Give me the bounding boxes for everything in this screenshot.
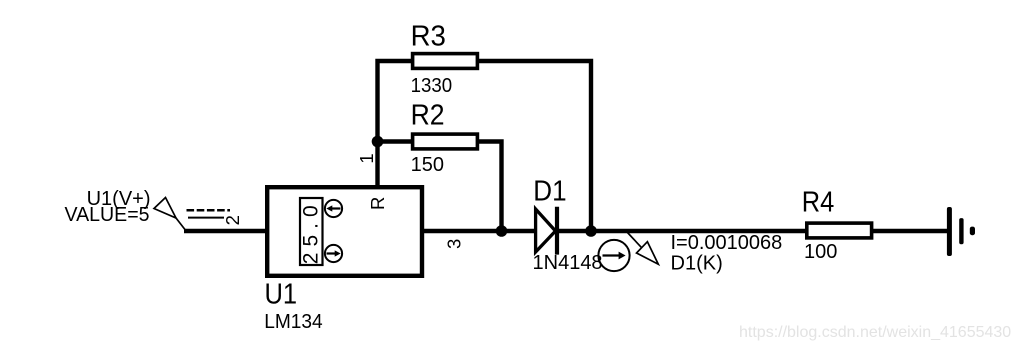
svg-text:R4: R4 xyxy=(802,187,835,219)
wire: R2 left stub xyxy=(378,139,412,143)
svg-text:R3: R3 xyxy=(411,21,446,53)
svg-text:1: 1 xyxy=(356,153,377,163)
current probe pennant triangle xyxy=(637,242,659,265)
svg-text:2: 2 xyxy=(222,215,243,225)
U1 inner setting rectangle xyxy=(300,198,323,265)
ground symbol bar 1 xyxy=(947,207,952,256)
wire: R3 right down to main net xyxy=(479,61,591,231)
svg-text:3: 3 xyxy=(444,239,465,249)
svg-text:U1: U1 xyxy=(265,278,298,310)
svg-text:D1(K): D1(K) xyxy=(671,253,723,275)
ground symbol dot xyxy=(970,227,975,236)
solid pin line xyxy=(188,217,224,219)
svg-text:1330: 1330 xyxy=(411,75,453,97)
diode D1 triangle xyxy=(536,209,556,252)
resistor R2 body xyxy=(413,134,478,149)
svg-text:R2: R2 xyxy=(411,100,445,132)
node: junction dot R2 to main net xyxy=(496,225,508,237)
U1 current arrow circle top (left arrow) xyxy=(325,200,342,217)
dashed pin line xyxy=(187,209,231,212)
wire: R2 right down to main net xyxy=(479,142,502,232)
svg-text:LM134: LM134 xyxy=(264,311,323,333)
resistor R3 body xyxy=(413,54,478,69)
svg-text:VALUE=5: VALUE=5 xyxy=(65,204,150,226)
wire: D1 cathode to ground through R4 xyxy=(557,229,948,233)
svg-text:1N4148: 1N4148 xyxy=(533,252,603,274)
svg-text:100: 100 xyxy=(804,241,837,263)
node: junction dot R3 to main net xyxy=(585,225,597,237)
svg-text:150: 150 xyxy=(411,154,444,176)
diode D1 cathode bar xyxy=(555,207,559,255)
svg-text:I=0.0010068: I=0.0010068 xyxy=(671,232,783,254)
current probe circle with arrow xyxy=(598,240,629,271)
svg-text:D1: D1 xyxy=(533,176,566,208)
wire: main horizontal net from source to U1 xyxy=(184,229,268,233)
node: junction dot pin1/R2/R3 xyxy=(372,136,384,148)
U1 current arrow circle bottom (right arrow) xyxy=(325,245,342,262)
svg-text:https://blog.csdn.net/weixin_4: https://blog.csdn.net/weixin_41655430 xyxy=(739,324,1011,341)
ground symbol bar 2 xyxy=(959,218,963,244)
wire: U1 pin3 to diode D1 anode xyxy=(421,229,537,233)
IC U1 box xyxy=(267,187,422,276)
svg-text:25.0: 25.0 xyxy=(299,199,322,264)
probe tail line xyxy=(176,218,187,232)
current probe pennant line xyxy=(627,232,642,248)
svg-text:R: R xyxy=(367,197,388,210)
wire: pin1 vertical up to R3 left xyxy=(378,61,412,187)
voltage source probe triangle (left) xyxy=(154,198,176,219)
resistor R4 body xyxy=(807,223,872,238)
